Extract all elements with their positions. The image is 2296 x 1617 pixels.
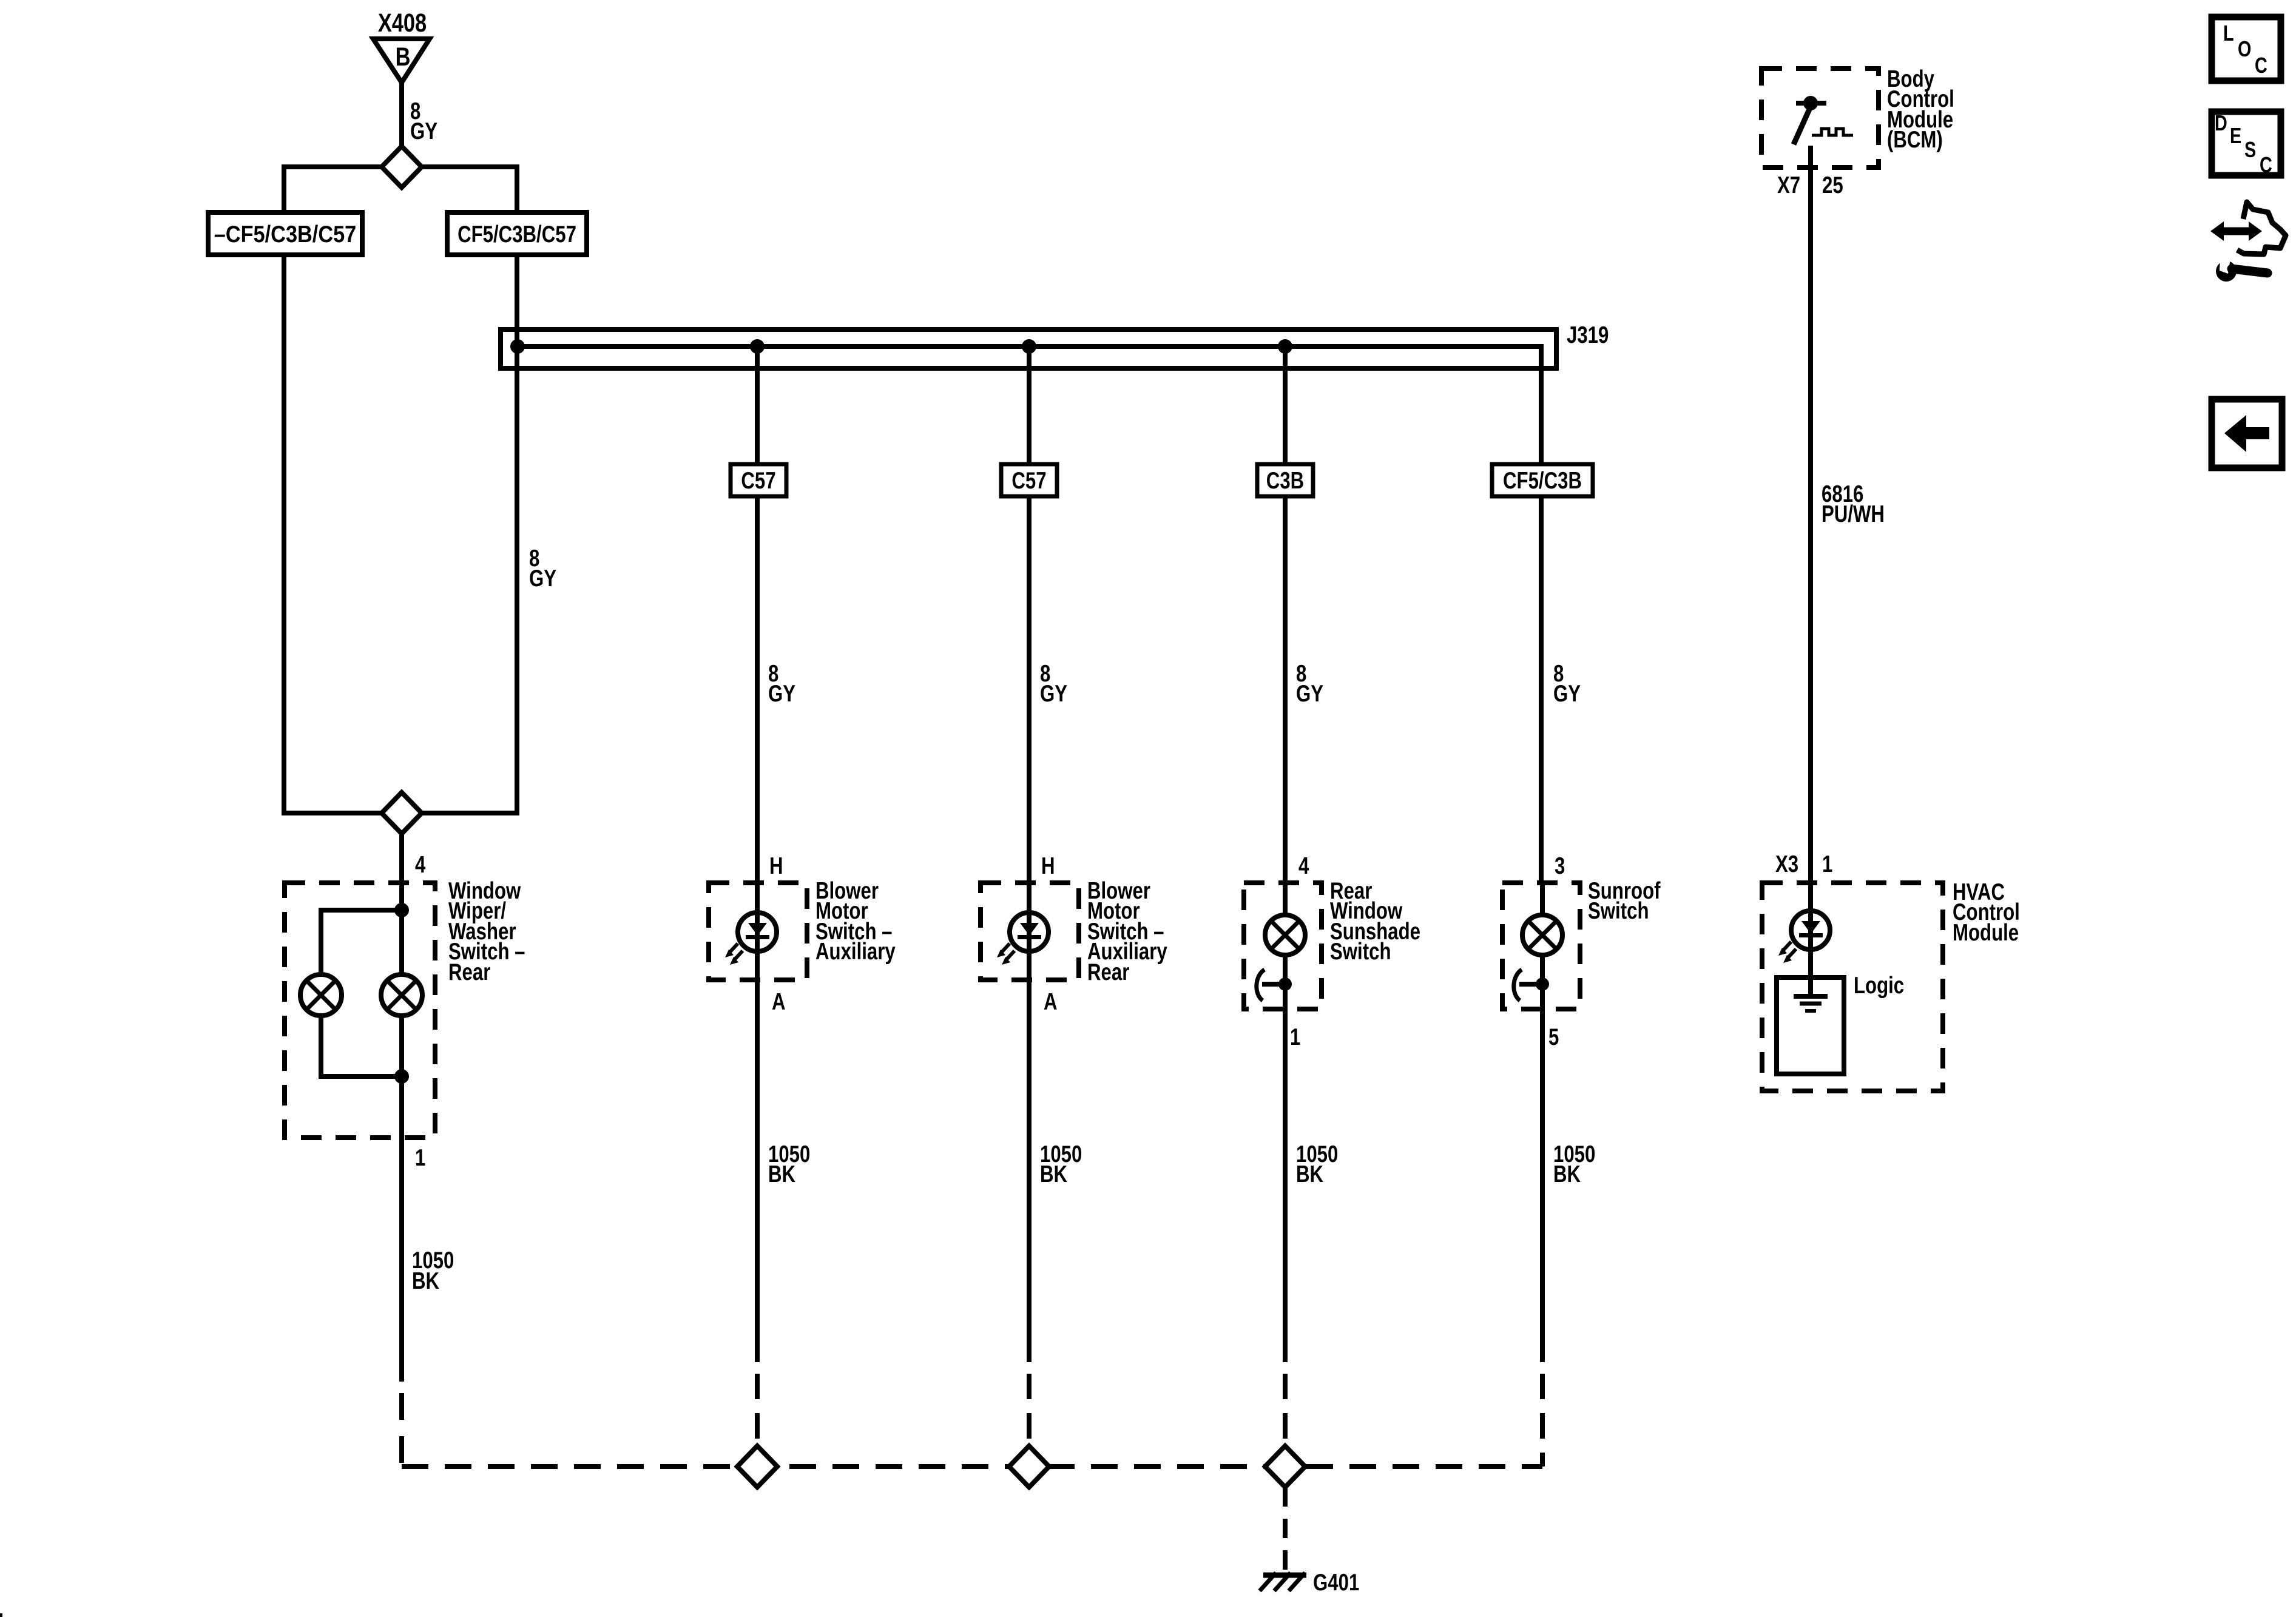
BCM driver switch: [1796, 101, 1826, 106]
dashed ground wire left: [399, 1393, 404, 1464]
window wiper/washer switch - rear box: [285, 883, 435, 1138]
svg-text:–CF5/C3B/C57: –CF5/C3B/C57: [214, 221, 357, 248]
connector service icon outline: [2237, 202, 2286, 254]
wire through sunroof switch: [1540, 883, 1545, 915]
svg-text:CF5/C3B/C57: CF5/C3B/C57: [458, 221, 576, 248]
ground G401 symbol: [1263, 1573, 1306, 1578]
svg-text:G401: G401: [1313, 1570, 1359, 1596]
LED lamp 1: [755, 883, 760, 980]
svg-text:BK: BK: [1040, 1161, 1067, 1187]
svg-text:D: D: [2215, 110, 2227, 135]
svg-text:GY: GY: [410, 118, 437, 144]
ground wire below blower 2: [1027, 980, 1032, 1362]
svg-text:Rear: Rear: [448, 959, 491, 985]
wire from X408 to splice: [399, 83, 404, 148]
LOC legend box: [2212, 17, 2281, 81]
harness box CF5/C3B/C57: [447, 212, 587, 255]
lamp right: [381, 974, 422, 1016]
svg-text:1: 1: [415, 1145, 425, 1171]
svg-text:CF5/C3B: CF5/C3B: [1503, 468, 1582, 494]
switch contact sunroof: [1519, 982, 1542, 987]
svg-text:H: H: [769, 853, 783, 879]
svg-text:E: E: [2230, 123, 2241, 148]
splice diamond: [382, 146, 422, 187]
svg-text:PU/WH: PU/WH: [1822, 501, 1885, 527]
DESC legend box: [2212, 112, 2281, 175]
svg-text:25: 25: [1822, 172, 1843, 198]
svg-text:4: 4: [415, 852, 426, 878]
wiper lamp outlet wires: [321, 1016, 402, 1076]
scan artifact dot: [0, 1613, 2, 1617]
harness box -CF5/C3B/C57: [208, 212, 362, 255]
ground splice diamond 2: [1009, 1446, 1049, 1487]
svg-text:C57: C57: [1011, 468, 1046, 494]
svg-text:4: 4: [1298, 853, 1309, 879]
svg-text:X7: X7: [1777, 172, 1800, 198]
lamp left: [300, 974, 342, 1016]
connector box C3B: [1257, 464, 1313, 496]
ground splice diamond 1: [737, 1446, 777, 1487]
wire drop 1: [755, 346, 760, 883]
connector box C57: [1001, 464, 1057, 496]
wire below -CF5 box down and across: [284, 255, 393, 813]
svg-text:GY: GY: [1296, 681, 1323, 707]
sunroof switch box: [1502, 883, 1580, 1009]
junction dot: [510, 339, 525, 354]
wire below CF5 box down and across: [410, 255, 517, 813]
svg-text:A: A: [1044, 989, 1058, 1015]
blower motor switch - auxiliary box: [709, 883, 807, 980]
svg-text:BK: BK: [412, 1268, 439, 1294]
svg-text:C: C: [2255, 53, 2267, 78]
wire through sunshade switch: [1283, 883, 1288, 915]
splice package J319: [501, 329, 1556, 368]
wire drop 2: [1027, 346, 1032, 883]
svg-text:O: O: [2238, 36, 2251, 61]
svg-text:C: C: [2260, 152, 2272, 177]
svg-text:L: L: [2223, 21, 2234, 46]
svg-text:Switch: Switch: [1588, 898, 1649, 924]
svg-text:(BCM): (BCM): [1887, 127, 1943, 153]
svg-text:S: S: [2244, 137, 2256, 162]
wrench icon: [2216, 261, 2237, 282]
svg-text:X408: X408: [378, 8, 427, 37]
svg-text:B: B: [396, 42, 411, 71]
junction dot: [1022, 339, 1036, 354]
junction dot: [1278, 339, 1292, 354]
ground splice diamond 3: [1265, 1446, 1305, 1487]
svg-text:A: A: [772, 989, 786, 1015]
junction dot: [394, 1069, 409, 1084]
connector X408 triangle: [373, 39, 430, 83]
dashed ground bus: [402, 1464, 1542, 1469]
svg-text:X3: X3: [1775, 851, 1798, 877]
bus wire inside J319: [518, 346, 1541, 883]
svg-text:3: 3: [1555, 853, 1565, 879]
lamp sunshade: [1265, 915, 1305, 955]
svg-text:C3B: C3B: [1266, 468, 1304, 494]
dashed drop blower2: [1027, 1374, 1032, 1464]
HVAC control module box: [1762, 883, 1943, 1091]
svg-text:Logic: Logic: [1854, 973, 1904, 999]
logic box: [1777, 977, 1844, 1074]
ground wire below wiper switch: [399, 1138, 404, 1382]
back arrow box: [2212, 399, 2282, 468]
svg-text:H: H: [1041, 853, 1055, 879]
svg-text:1: 1: [1290, 1024, 1300, 1050]
svg-text:C57: C57: [741, 468, 775, 494]
connector service icon double arrow: [2221, 228, 2252, 235]
dashed drop sunshade: [1283, 1374, 1288, 1464]
svg-text:GY: GY: [529, 565, 556, 592]
dashed drop blower1: [755, 1374, 760, 1464]
svg-text:5: 5: [1548, 1024, 1559, 1050]
blower motor switch - auxiliary rear box: [981, 883, 1079, 980]
junction dot: [750, 339, 765, 354]
wiper switch inner branch wire: [321, 910, 402, 974]
junction dot: [394, 903, 409, 917]
svg-text:Rear: Rear: [1087, 959, 1130, 985]
splice diamond lower: [382, 792, 422, 834]
svg-text:Switch: Switch: [1330, 939, 1391, 965]
HVAC LED: [1791, 911, 1830, 950]
body control module box: [1761, 69, 1879, 167]
svg-text:GY: GY: [768, 681, 795, 707]
wire left branch to -CF5/C3B/C57: [284, 167, 393, 212]
svg-text:GY: GY: [1040, 681, 1067, 707]
svg-text:Auxiliary: Auxiliary: [815, 939, 896, 965]
connector box C57: [731, 464, 786, 496]
svg-text:Module: Module: [1953, 920, 2019, 946]
svg-text:1: 1: [1822, 851, 1832, 877]
dashed wire to G401: [1283, 1487, 1288, 1571]
ground wire below blower 1: [755, 980, 760, 1362]
wire BCM to HVAC: [1808, 167, 1813, 883]
svg-text:BK: BK: [1553, 1161, 1581, 1187]
svg-text:J319: J319: [1567, 322, 1609, 348]
dashed drop sunroof: [1540, 1374, 1545, 1467]
lamp sunroof: [1522, 915, 1562, 955]
rear window sunshade switch box: [1244, 883, 1322, 1009]
wire right branch to CF5/C3B/C57: [410, 167, 517, 212]
LED lamp 2: [1027, 883, 1032, 980]
wire from splice to wiper switch: [399, 834, 404, 974]
svg-text:BK: BK: [1296, 1161, 1323, 1187]
svg-text:GY: GY: [1553, 681, 1581, 707]
svg-text:BK: BK: [768, 1161, 795, 1187]
wire into HVAC: [1808, 883, 1813, 996]
internal ground: [1794, 994, 1828, 999]
wire drop 3: [1283, 346, 1288, 883]
connector box CF5/C3B: [1492, 464, 1593, 496]
switch contact sunshade: [1262, 982, 1285, 987]
